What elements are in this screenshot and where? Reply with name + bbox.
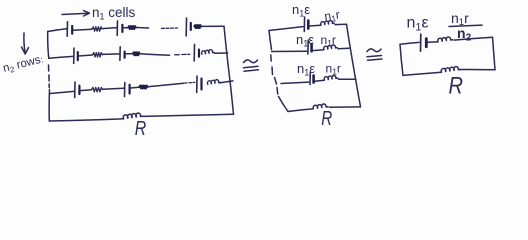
svg-text:n1 cells: n1 cells: [92, 5, 136, 22]
svg-text:n1r: n1r: [321, 33, 336, 48]
svg-text:n2 rows:: n2 rows:: [2, 53, 45, 76]
svg-text:n1r: n1r: [323, 7, 340, 24]
svg-text:n2: n2: [457, 25, 472, 43]
svg-text:n1ε: n1ε: [297, 61, 315, 77]
svg-text:n1r: n1r: [326, 62, 341, 77]
svg-text:n1ε: n1ε: [407, 15, 429, 34]
svg-text:R: R: [449, 73, 464, 100]
svg-text:R: R: [135, 118, 147, 140]
svg-text:n1ε: n1ε: [292, 2, 310, 18]
svg-text:n1ε: n1ε: [296, 32, 314, 48]
svg-text:R: R: [321, 108, 332, 130]
